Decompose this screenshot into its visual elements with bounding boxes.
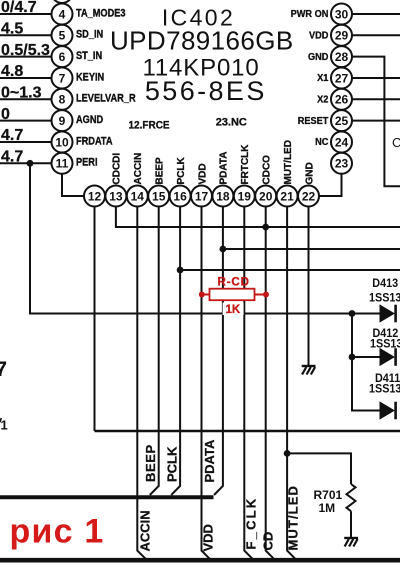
IC402 pin 24 [331, 132, 352, 153]
wire to IC402 pin 6 from left edge [0, 56, 52, 58]
pin name RESET [298, 115, 329, 126]
IC402 pin 30 [331, 4, 352, 25]
pin name PERI [76, 157, 98, 169]
svg-text:20: 20 [259, 189, 273, 203]
ground symbol for pin22 GND [302, 366, 316, 375]
svg-text:26: 26 [335, 93, 349, 107]
IC402 pin 26 [331, 89, 352, 110]
pin note 23.NC [216, 117, 247, 129]
pin name X2 [317, 94, 328, 105]
svg-text:1SS133: 1SS133 [369, 383, 400, 396]
wire diode branch down [352, 314, 380, 411]
svg-text:0.5/5.3: 0.5/5.3 [1, 42, 50, 59]
wire pin29 VDD to right edge [352, 34, 400, 36]
wire pin13 CDCDI down and right to edge [116, 207, 400, 228]
pin name CDCDI (rotated) [112, 153, 123, 185]
wire from pin11 to pin12 [62, 174, 84, 196]
wire to IC402 pin 7 from left edge [0, 77, 52, 79]
svg-text:PWR ON: PWR ON [291, 9, 329, 20]
pin name PWR ON [291, 9, 329, 20]
pin name CDCO (rotated) [262, 155, 273, 185]
IC402 pin 23 [331, 153, 352, 174]
pin name MUT/LED (rotated) [283, 140, 294, 184]
resistor R-CD 1K (red) [199, 289, 269, 301]
IC402 pin 13 [105, 186, 126, 207]
IC402 pin 6 (ST_IN) [52, 46, 73, 67]
svg-text:LEVELVAR_R: LEVELVAR_R [76, 93, 136, 105]
wire pin15 BEEP down to upper bus [150, 207, 159, 496]
diode D413 [380, 305, 396, 323]
pin name KEYIN [76, 72, 104, 84]
svg-text:MUT/LED: MUT/LED [283, 140, 294, 184]
IC402 pin 3 (cut off at top edge) [52, 0, 73, 3]
IC402 pin 16 [170, 186, 191, 207]
svg-text:ACCIN: ACCIN [133, 153, 144, 185]
label D412 [373, 328, 399, 341]
IC402 pin 7 (KEYIN) [52, 68, 73, 89]
pin name VDD (rotated) [197, 163, 208, 184]
svg-text:22: 22 [302, 189, 316, 203]
svg-text:1SS133: 1SS133 [369, 292, 400, 305]
svg-text:CDCO: CDCO [262, 155, 273, 185]
pin name TA_MODE3 [76, 8, 126, 20]
junction dot at D412 anode branch [349, 354, 356, 361]
svg-text:рис 1: рис 1 [10, 513, 105, 551]
svg-text:25: 25 [335, 114, 349, 128]
svg-text:7: 7 [59, 71, 66, 85]
IC402 pin 22 [298, 186, 319, 207]
svg-text:23.NC: 23.NC [216, 117, 247, 129]
pin name GND [308, 51, 328, 62]
wire pin27 X1 to right edge [352, 77, 400, 79]
svg-text:4: 4 [59, 7, 66, 21]
svg-text:CDCDI: CDCDI [112, 153, 123, 185]
IC402 pin 4 (TA_MODE3) [52, 4, 73, 25]
svg-text:AGND: AGND [76, 114, 103, 126]
label MUT/LED (rotated) [285, 485, 300, 550]
svg-text:12: 12 [88, 189, 102, 203]
IC402 pin 21 [277, 186, 298, 207]
junction dot on PCLK wire [177, 267, 184, 274]
svg-text:C: C [392, 135, 400, 150]
svg-text:F_CLK: F_CLK [243, 497, 258, 550]
svg-text:7: 7 [0, 358, 7, 381]
wire pin14 ACCIN down to bottom bus [137, 207, 146, 560]
svg-text:8: 8 [59, 93, 66, 107]
label CD (rotated) [261, 532, 276, 551]
IC402 pin 14 [127, 186, 148, 207]
svg-text:VDD: VDD [197, 163, 208, 184]
svg-text:13: 13 [109, 189, 123, 203]
IC402 pin 28 [331, 46, 352, 67]
wire pin28 GND elbow to right edge [352, 57, 400, 187]
wire to IC402 pin 10 from left edge [0, 141, 52, 143]
svg-text:1M: 1M [319, 501, 336, 515]
IC402 pin 11 (PERI) [52, 153, 73, 174]
wire pin18 PDATA down to upper bus [214, 207, 223, 496]
svg-text:556-8ES: 556-8ES [145, 76, 267, 106]
svg-text:17: 17 [195, 189, 209, 203]
pin name ACCIN (rotated) [133, 153, 144, 185]
wire pin12 FRCE down and right to edge [94, 207, 96, 432]
wire to D412 anode [352, 356, 380, 358]
svg-text:GND: GND [304, 162, 315, 184]
svg-text:11: 11 [56, 157, 69, 171]
svg-text:30: 30 [335, 7, 349, 21]
svg-text:6: 6 [59, 50, 66, 64]
svg-text:5: 5 [59, 29, 66, 43]
IC402 pin 12 [84, 186, 105, 207]
wire to IC402 pin 9 from left edge [0, 120, 52, 122]
svg-text:29: 29 [335, 29, 349, 43]
resistor R701 1M (zigzag) [347, 484, 356, 511]
svg-text:R701: R701 [314, 488, 343, 502]
pin name ST_IN [76, 50, 102, 62]
label 1SS133 [369, 383, 400, 396]
label ACCIN (rotated) [137, 510, 152, 551]
svg-text:FRTCLK: FRTCLK [240, 144, 251, 185]
junction dot on PERI wire [27, 160, 34, 167]
junction dot on PDATA wire [220, 246, 227, 253]
wire pin17 VDD down to bottom bus [202, 207, 211, 560]
svg-text:SD_IN: SD_IN [76, 29, 103, 41]
pin name PDATA (rotated) [219, 152, 230, 185]
svg-text:1K: 1K [226, 304, 241, 316]
wire PERI net down left side and across to diodes [30, 163, 380, 313]
ground symbol for R701 [344, 538, 358, 547]
wire pin23 down to pin22 GND [319, 174, 342, 196]
svg-text:BEEP: BEEP [143, 444, 158, 482]
svg-text:VDD: VDD [201, 524, 216, 551]
svg-text:0/4.7: 0/4.7 [1, 0, 37, 16]
svg-text:TA_MODE3: TA_MODE3 [76, 8, 126, 20]
pin name SD_IN [76, 29, 103, 41]
svg-text:4.8: 4.8 [1, 63, 23, 80]
label F_CLK (rotated) [243, 497, 258, 550]
wire to IC402 pin 8 from left edge [0, 98, 52, 100]
IC402 pin 19 [234, 186, 255, 207]
label 1SS133 [370, 338, 400, 351]
svg-text:BEEP: BEEP [155, 157, 166, 185]
pin name BEEP (rotated) [155, 157, 166, 185]
svg-text:10: 10 [55, 135, 69, 149]
label 1SS133 [369, 292, 400, 305]
wire MUT/LED branch to R701 [287, 453, 351, 484]
pin name GND (rotated) [304, 162, 315, 184]
svg-text:R-CD: R-CD [218, 277, 250, 289]
IC402 pin 18 [212, 186, 233, 207]
svg-text:X2: X2 [317, 94, 328, 105]
label PDATA (rotated) [202, 439, 217, 482]
label 1K (on white box) [223, 303, 244, 316]
svg-text:0~1.3: 0~1.3 [1, 85, 42, 102]
wire PCLK branch to right edge [180, 269, 400, 271]
IC402 pin 15 [148, 186, 169, 207]
svg-text:16: 16 [173, 189, 187, 203]
pin name FRTCLK (rotated) [240, 144, 251, 185]
wire pin20 CDCO down to bottom bus [266, 207, 275, 560]
wire PDATA branch to right edge [223, 248, 400, 250]
wire pin22 GND down to ground [308, 207, 310, 366]
svg-text:4.5: 4.5 [1, 21, 23, 38]
svg-text:X1: X1 [317, 73, 329, 84]
pin name X1 [317, 73, 329, 84]
wire to IC402 pin 11 from left edge [0, 162, 52, 164]
svg-text:MUT/LED: MUT/LED [285, 485, 300, 550]
wire pin25 RESET to right edge [352, 120, 400, 122]
svg-text:PERI: PERI [76, 157, 98, 169]
svg-text:12.FRCE: 12.FRCE [129, 119, 170, 132]
svg-text:14: 14 [131, 189, 145, 203]
svg-text:23: 23 [335, 157, 349, 171]
bus (thick) bottom [0, 558, 400, 563]
svg-text:D413: D413 [372, 278, 398, 291]
label VDD (rotated) [201, 524, 216, 551]
diode D411 [380, 402, 396, 420]
junction dot CDCDI/CDCO net [262, 224, 269, 231]
wire pin26 X2 to right edge [352, 98, 400, 100]
IC402 pin 25 [331, 110, 352, 131]
svg-text:28: 28 [335, 50, 349, 64]
svg-text:PCLK: PCLK [165, 446, 180, 482]
pin name FRDATA [76, 136, 113, 148]
pin name AGND [76, 114, 103, 126]
svg-text:24: 24 [335, 135, 349, 149]
svg-text:NC: NC [315, 137, 328, 148]
wire pin30 PWR ON to right edge [352, 13, 400, 15]
svg-text:18: 18 [216, 189, 230, 203]
svg-text:ST_IN: ST_IN [76, 50, 102, 62]
bus (thick) upper left [0, 495, 214, 499]
label PCLK (rotated) [165, 446, 180, 482]
svg-text:KEYIN: KEYIN [76, 72, 104, 84]
svg-text:PDATA: PDATA [202, 439, 217, 482]
IC402 pin 8 (LEVELVAR_R) [52, 89, 73, 110]
wire pin21 MUT/LED down to bottom bus [287, 207, 296, 560]
junction dot at D413 anode branch [349, 310, 356, 317]
pin name NC [315, 137, 328, 148]
svg-text:PCLK: PCLK [176, 157, 187, 185]
svg-text:CD: CD [261, 532, 276, 551]
junction dot on MUT/LED wire [284, 450, 291, 457]
svg-text:9: 9 [59, 114, 66, 128]
pin note 12.FRCE [129, 119, 170, 132]
svg-text:FRDATA: FRDATA [76, 136, 113, 148]
wire pin16 PCLK down to upper bus [171, 207, 180, 496]
IC402 pin 5 (SD_IN) [52, 25, 73, 46]
svg-text:27: 27 [335, 71, 349, 85]
svg-text:PDATA: PDATA [219, 152, 230, 185]
label D411 [375, 373, 400, 386]
label BEEP (rotated) [143, 444, 158, 482]
svg-text:VDD: VDD [309, 30, 328, 41]
label D413 [372, 278, 398, 291]
IC402 pin 29 [331, 25, 352, 46]
svg-text:15: 15 [152, 189, 166, 203]
svg-text:RESET: RESET [298, 115, 329, 126]
pin name PCLK (rotated) [176, 157, 187, 185]
wire R701 to ground [350, 511, 352, 537]
diode D412 [380, 348, 396, 366]
IC402 pin 9 (AGND) [52, 110, 73, 131]
IC402 pin 10 (FRDATA) [52, 132, 73, 153]
svg-text:4.7: 4.7 [1, 149, 23, 166]
wire pin19 FRTCLK down to bottom bus [244, 207, 253, 560]
IC402 pin 27 [331, 68, 352, 89]
svg-text:0: 0 [1, 106, 10, 123]
svg-text:GND: GND [308, 51, 328, 62]
IC402 pin 20 [255, 186, 276, 207]
pin name LEVELVAR_R [76, 93, 136, 105]
IC402 pin 17 [191, 186, 212, 207]
wire to IC402 pin 4 from left edge [0, 13, 52, 15]
wire to IC402 pin 5 from left edge [0, 34, 52, 36]
svg-text:4.7: 4.7 [1, 127, 23, 144]
svg-text:ACCIN: ACCIN [137, 510, 152, 551]
pin name VDD [309, 30, 328, 41]
svg-text:1SS133: 1SS133 [370, 338, 400, 351]
svg-text:21: 21 [280, 189, 294, 203]
svg-text:UPD789166GB: UPD789166GB [110, 25, 294, 55]
svg-text:19: 19 [238, 189, 252, 203]
